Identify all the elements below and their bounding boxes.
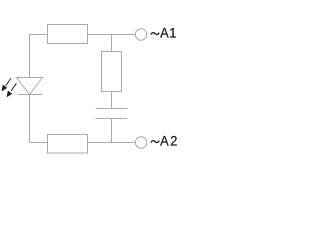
svg-text:1: 1 xyxy=(169,25,176,40)
svg-text:A: A xyxy=(160,133,169,148)
svg-text:A: A xyxy=(160,25,169,40)
svg-text:2: 2 xyxy=(170,133,177,148)
